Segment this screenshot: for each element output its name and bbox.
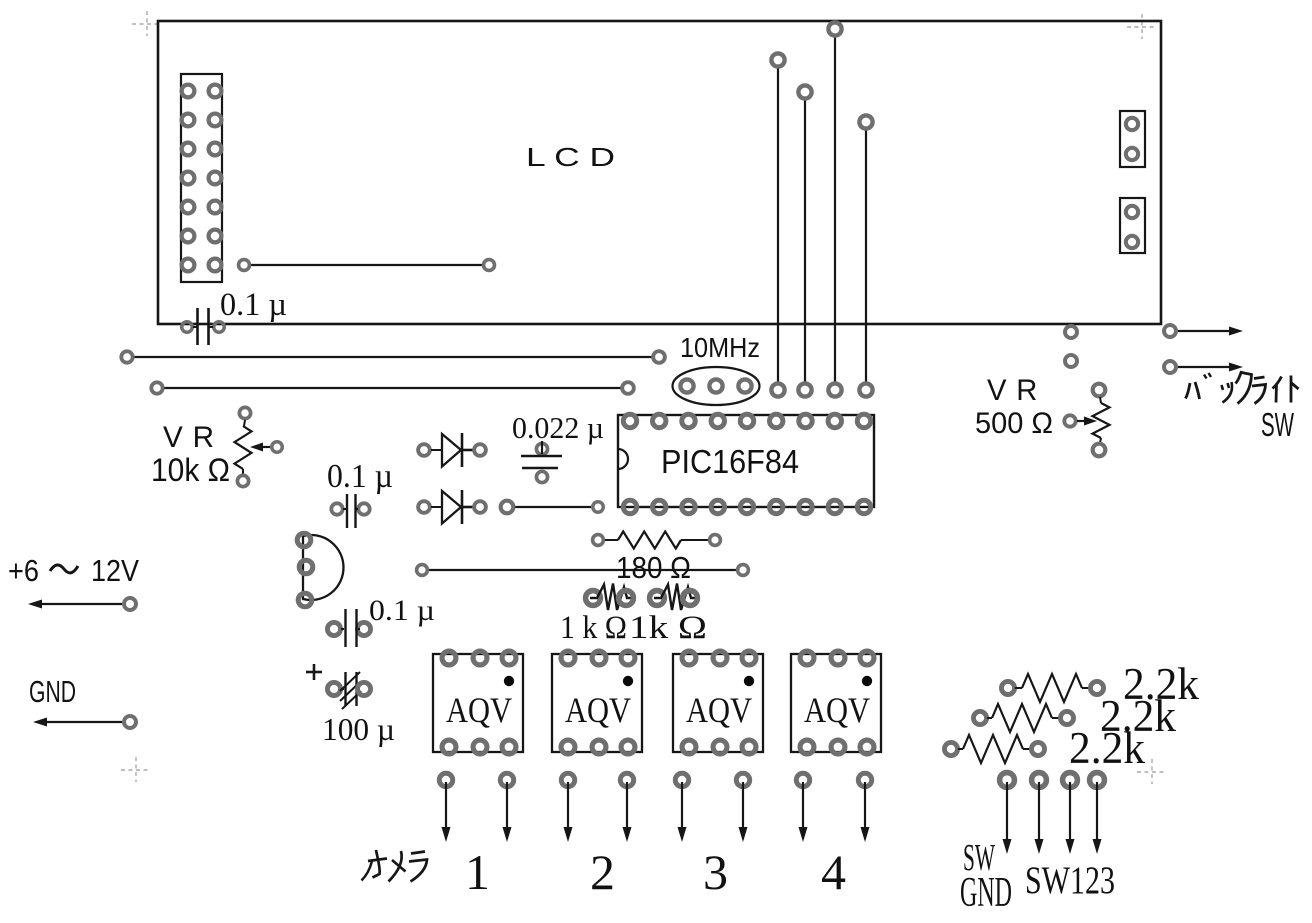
U5 bottom pads [800,740,814,754]
wire: header to LCD pad [251,264,482,266]
svg-text:100 µ: 100 µ [322,711,395,747]
transistor Q1 outline [303,535,344,600]
resistor R6 2.2k [944,742,957,755]
svg-text:4: 4 [821,844,846,900]
LCD module outline [158,21,1161,324]
svg-text:GND: GND [960,870,1012,916]
svg-text:AQV: AQV [565,690,631,730]
power input pad [124,598,136,610]
resistor R5 2.2k [973,711,986,724]
wire: bus to left pad 1 [134,356,652,358]
wire: LCD pad A to PIC row [777,68,779,382]
U3 top pads [561,651,575,665]
crystal X1 10MHz outline [673,367,760,405]
svg-text:PIC16F84: PIC16F84 [661,443,799,480]
switch pad 4 [1090,773,1105,788]
svg-text:3: 3 [703,844,728,900]
switch pad 1 [1000,773,1015,788]
backlight output 2 [1164,361,1176,373]
wire: to U1 bottom-left [514,506,591,508]
svg-text:SW123: SW123 [1025,859,1115,902]
svg-text:2.2k: 2.2k [1069,723,1145,773]
svg-text:2: 2 [590,844,615,900]
U2 bottom pads [442,740,456,754]
diode D2 [418,501,430,513]
svg-text:12V: 12V [91,553,139,588]
svg-text:AQV: AQV [686,690,752,730]
svg-text:AQV: AQV [446,690,512,730]
capacitor C5 100u polarity plus [306,671,322,674]
resistor R4 2.2k [1001,681,1014,694]
svg-text:+6: +6 [8,553,39,588]
label backlight (katakana) [1186,383,1191,399]
camera 2 output pad R [620,773,633,786]
camera 1 output pad L [439,773,452,786]
resistor R1 180 [593,535,604,546]
VR1 wiper arrow [272,442,283,453]
capacitor C3 0.1u [331,503,342,514]
optocoupler U2 AQV outline [433,654,523,752]
svg-text:VR: VR [163,421,224,454]
camera 3 output pad L [675,773,688,786]
capacitor C2 0.022u [536,443,547,454]
resistor R2 1k [586,591,601,606]
camera 2 output pad L [561,773,574,786]
svg-text:SW: SW [1261,406,1295,443]
svg-text:500 Ω: 500 Ω [975,407,1053,440]
U2 pin-1 dot [504,676,514,686]
U4 pin-1 dot [744,676,754,686]
svg-text:1k Ω: 1k Ω [629,610,707,646]
potentiometer VR1 10k [239,407,250,418]
ground pad [124,716,136,728]
U4 top pads [682,651,696,665]
camera 4 output pad R [858,773,871,786]
svg-text:0.1 µ: 0.1 µ [220,287,287,323]
svg-text:10MHz: 10MHz [680,332,760,363]
svg-text:0.1 µ: 0.1 µ [327,458,393,495]
label camera (katakana) [368,859,387,862]
backlight pad B [1065,355,1077,367]
op IC U1 PIC16F84 outline [618,415,874,507]
svg-text:VR: VR [987,374,1047,407]
svg-text:10k Ω: 10k Ω [151,452,230,488]
svg-text:0.022 µ: 0.022 µ [512,410,604,445]
U3 bottom pads [561,740,575,754]
svg-text:180 Ω: 180 Ω [616,550,691,585]
camera 1 output pad R [500,773,513,786]
wire: LCD pad D to PIC row [865,130,867,382]
wire: bus to left pad 2 [164,387,621,389]
svg-text:1 k Ω: 1 k Ω [560,610,627,646]
backlight pad A [1065,326,1077,338]
svg-text:0.1 µ: 0.1 µ [369,594,435,627]
U1 pin-1 notch [618,449,628,469]
optocoupler U3 AQV outline [552,654,642,752]
diode D1 [418,444,430,456]
VR2 wiper arrow [1064,415,1075,426]
U4 bottom pads [682,740,696,754]
capacitor C5 100u [327,682,340,695]
wire: LCD pad B to PIC row [804,100,806,382]
camera 3 output pad R [736,773,749,786]
backlight connector J2 lower [1120,198,1145,253]
potentiometer VR2 500 [1093,384,1106,397]
Q1 pad emitter [297,533,311,547]
backlight output 1 [1164,325,1176,337]
switch pad 3 [1063,773,1078,788]
camera 4 output pad L [796,773,809,786]
CN1 pads column 1 [182,85,195,98]
capacitor C4 0.1u [327,622,340,635]
switch pad 2 [1032,773,1047,788]
CN1 pads column 2 [209,85,222,98]
U1 top pin pads 1-9 [623,414,636,427]
LCD 14-pin header connector CN1 [181,74,222,282]
optocoupler U4 AQV outline [673,654,763,752]
wire: Q1 area to U1 area [429,569,736,571]
backlight connector J2 upper [1120,111,1145,167]
svg-text:AQV: AQV [804,690,870,730]
Q1 pad collector [298,593,312,607]
U5 top pads [800,651,814,665]
wire: LCD pad C to PIC row [834,37,836,382]
capacitor C1 0.1u [182,322,193,333]
U5 pin-1 dot [862,676,872,686]
U3 pin-1 dot [623,676,633,686]
U2 top pads [442,651,456,665]
svg-text:1: 1 [465,844,490,900]
resistor R3 1k [650,591,665,606]
svg-text:L C D: L C D [526,142,615,172]
U1 bottom pin pads 10-18 [623,500,636,513]
optocoupler U5 AQV outline [791,654,881,752]
svg-text:GND: GND [29,674,76,709]
Q1 pad base [299,560,313,574]
